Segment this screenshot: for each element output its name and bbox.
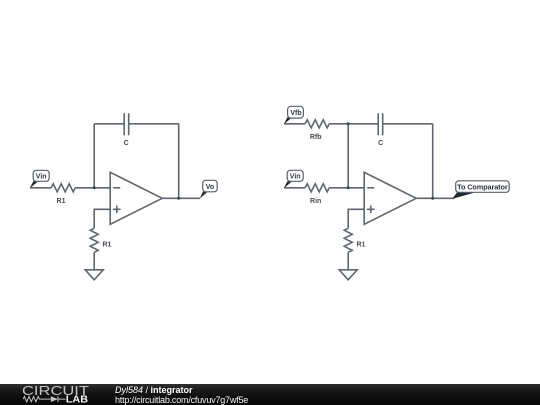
svg-text:Vin: Vin (36, 174, 47, 181)
svg-text:Vin: Vin (290, 174, 301, 181)
svg-text:R1: R1 (57, 198, 66, 205)
svg-text:Dyl584 / integrator: Dyl584 / integrator (115, 385, 193, 395)
svg-text:C: C (124, 140, 129, 147)
svg-text:C: C (378, 140, 383, 147)
svg-text:Rin: Rin (310, 198, 321, 205)
svg-text:R1: R1 (103, 241, 112, 248)
svg-text:Rfb: Rfb (310, 134, 322, 141)
svg-text:R1: R1 (357, 241, 366, 248)
svg-text:http://circuitlab.com/cfuvuv7g: http://circuitlab.com/cfuvuv7g7wf5e (115, 395, 248, 405)
svg-text:To Comparator: To Comparator (457, 182, 508, 191)
svg-text:LAB: LAB (66, 395, 88, 405)
svg-text:Vo: Vo (206, 184, 214, 191)
svg-text:Vfb: Vfb (290, 110, 301, 117)
